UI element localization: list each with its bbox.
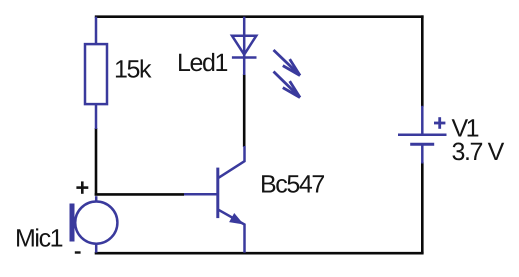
svg-text:15k: 15k [114,56,152,84]
svg-text:Bc547: Bc547 [260,171,324,199]
battery V1 [398,106,447,164]
LED Led1 [232,17,257,75]
transistor Q1 (Bc547) [184,146,245,253]
svg-text:3.7 V: 3.7 V [452,138,505,166]
label + (mic polarity) [76,181,88,193]
wire left vertical (resistor bottom to base junction) [95,128,98,196]
wire base horizontal [95,193,184,196]
battery + sign [434,117,445,129]
LED light arrow 2 [274,72,301,98]
wire right vertical upper (top wire to battery) [421,15,424,107]
wire top horizontal [95,15,424,18]
transistor emitter arrowhead [230,214,243,224]
LED light arrow 1 [274,50,301,76]
svg-text:Mic1: Mic1 [15,225,63,253]
wire LED cathode to transistor collector [243,74,246,147]
wire bottom horizontal [95,252,424,255]
svg-text:Led1: Led1 [177,49,228,77]
label - (mic polarity) [75,251,81,253]
microphone Mic1 [72,196,117,252]
resistor R1 [85,17,107,129]
wire right vertical lower (battery to bottom wire) [421,162,424,253]
